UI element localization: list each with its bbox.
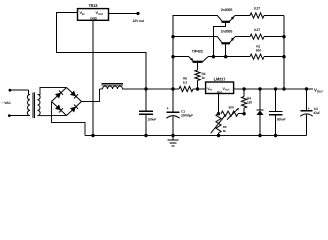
node ADJ junction [217, 112, 220, 115]
svg-text:7812: 7812 [89, 3, 99, 8]
node 12V out terminal [136, 12, 139, 15]
wire: TIP42C base [197, 62, 199, 70]
svg-text:500: 500 [256, 49, 261, 53]
svg-text:+: + [308, 107, 310, 111]
wire: Q2 base [225, 43, 227, 56]
wire: 7812 GND down to ground rail [92, 20, 94, 135]
node R2/rail junction [196, 87, 199, 90]
wire: 7812 Vout to 12V terminal [109, 13, 139, 15]
svg-text:120: 120 [247, 101, 252, 105]
transistor Q1 2n3055 [217, 16, 222, 22]
node junction rail/trunk/C1 [171, 87, 174, 90]
svg-text:47µF: 47µF [313, 111, 320, 115]
wire: LM317 Vout to output rail [234, 88, 313, 90]
wire: Q1 base [213, 22, 225, 57]
svg-text:500: 500 [228, 105, 233, 109]
svg-text:LM317: LM317 [214, 77, 227, 82]
svg-text:500nF: 500nF [277, 118, 286, 122]
svg-text:TIP42C: TIP42C [192, 50, 204, 54]
resistor 0.27 (Q1 emitter) [250, 13, 264, 18]
diode D3 bridge bottom-left [55, 104, 61, 110]
wire: right rail [283, 16, 285, 90]
regulator U1 LM317 [206, 82, 234, 94]
wire: trunk vertical (raw DC to collectors) [173, 16, 217, 90]
inductor L1 [103, 86, 123, 89]
transistor Q2 2n3055 [217, 37, 222, 44]
potentiometer R5 5k [216, 114, 221, 133]
svg-text:VOUT: VOUT [314, 88, 323, 94]
svg-text:~ VAC: ~ VAC [2, 101, 12, 105]
wire: rail to LM317 Vin [193, 88, 206, 90]
node R5 pot ground junction [217, 134, 220, 137]
ground [172, 136, 174, 141]
svg-text:0.27: 0.27 [254, 28, 260, 32]
wire: Q2 collector feed [173, 36, 217, 38]
wire: 7812 Vin feed [57, 13, 146, 90]
svg-text:5k: 5k [223, 129, 227, 133]
node junction rail/7812-Vin/100nF [144, 87, 147, 90]
wire: LM317 ADJ lead [218, 94, 220, 114]
capacitor C3 47uF [306, 89, 308, 111]
wire: main rail inductor to R3 [122, 88, 179, 90]
wire: secondary top lead to bridge AC1 [38, 88, 67, 95]
svg-text:1k: 1k [202, 76, 206, 80]
diode D4 bridge bottom-right [70, 107, 76, 113]
resistor R1 500 [250, 54, 264, 59]
wire: inductor lead-in [100, 88, 103, 90]
svg-text:ADJ: ADJ [217, 90, 223, 94]
diode D1 bridge top-left [55, 93, 61, 99]
potentiometer 500 [221, 111, 238, 116]
node pot/R4 junction [242, 112, 245, 115]
svg-text:2n3055: 2n3055 [221, 8, 233, 12]
node 7812 GND junction [91, 134, 94, 137]
diode D2 bridge top-right [70, 90, 76, 96]
svg-text:C1: C1 [181, 109, 185, 113]
wire: AC input bottom lead [8, 114, 11, 117]
wire: TIP42C collector line (base drive bus) [208, 56, 250, 58]
wire: Q2 emitter line to R 0.27 [235, 36, 250, 38]
svg-text:6.2: 6.2 [183, 80, 187, 84]
wire: TIP42C emitter feed [173, 56, 189, 58]
resistor 0.27 (Q2 emitter) [250, 34, 264, 39]
svg-text:VOUT: VOUT [223, 87, 231, 92]
wire: bridge DC+ to filter [82, 89, 100, 102]
resistor R4 120 [243, 89, 245, 97]
capacitor C1 10000uF [172, 89, 174, 112]
wire: ground rail [85, 135, 307, 137]
wire: Q1 emitter line to R 0.27 [235, 15, 250, 17]
svg-text:VIN: VIN [207, 87, 212, 92]
resistor R5 6.2 (rail) [179, 86, 193, 91]
node Q1 base junction [212, 55, 215, 58]
node Q2 base junction [224, 55, 227, 58]
capacitor 100nF [145, 89, 147, 111]
resistor R2 1k [195, 70, 200, 81]
wire: secondary bottom lead to bridge AC2 [38, 115, 67, 117]
capacitor 500nF [275, 89, 277, 112]
svg-text:0.27: 0.27 [254, 7, 260, 11]
bridge rectifier BR1 [52, 88, 67, 102]
regulator U2 7812 [78, 9, 109, 21]
wire: bridge DC- to ground rail [52, 102, 86, 136]
wire: AC input top lead [9, 89, 12, 92]
svg-text:100nF: 100nF [148, 118, 157, 122]
diode D5 (output protection) [259, 89, 261, 110]
svg-text:10000µF: 10000µF [181, 114, 193, 118]
transformer T1 [27, 95, 30, 116]
svg-text:2n3055: 2n3055 [221, 29, 233, 33]
svg-text:GND: GND [90, 17, 98, 21]
svg-text:12V out: 12V out [133, 19, 146, 23]
